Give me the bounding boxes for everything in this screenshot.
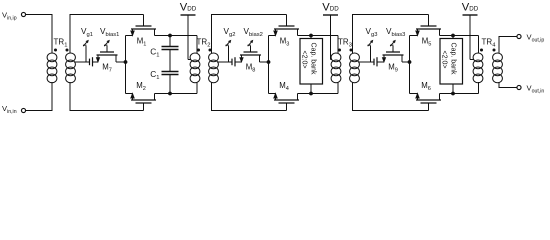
svg-text:Cap. bank: Cap. bank — [449, 43, 456, 75]
svg-text:<2:0>: <2:0> — [300, 51, 307, 69]
svg-text:<2:0>: <2:0> — [440, 51, 447, 69]
svg-text:Cap. bank: Cap. bank — [309, 43, 316, 75]
